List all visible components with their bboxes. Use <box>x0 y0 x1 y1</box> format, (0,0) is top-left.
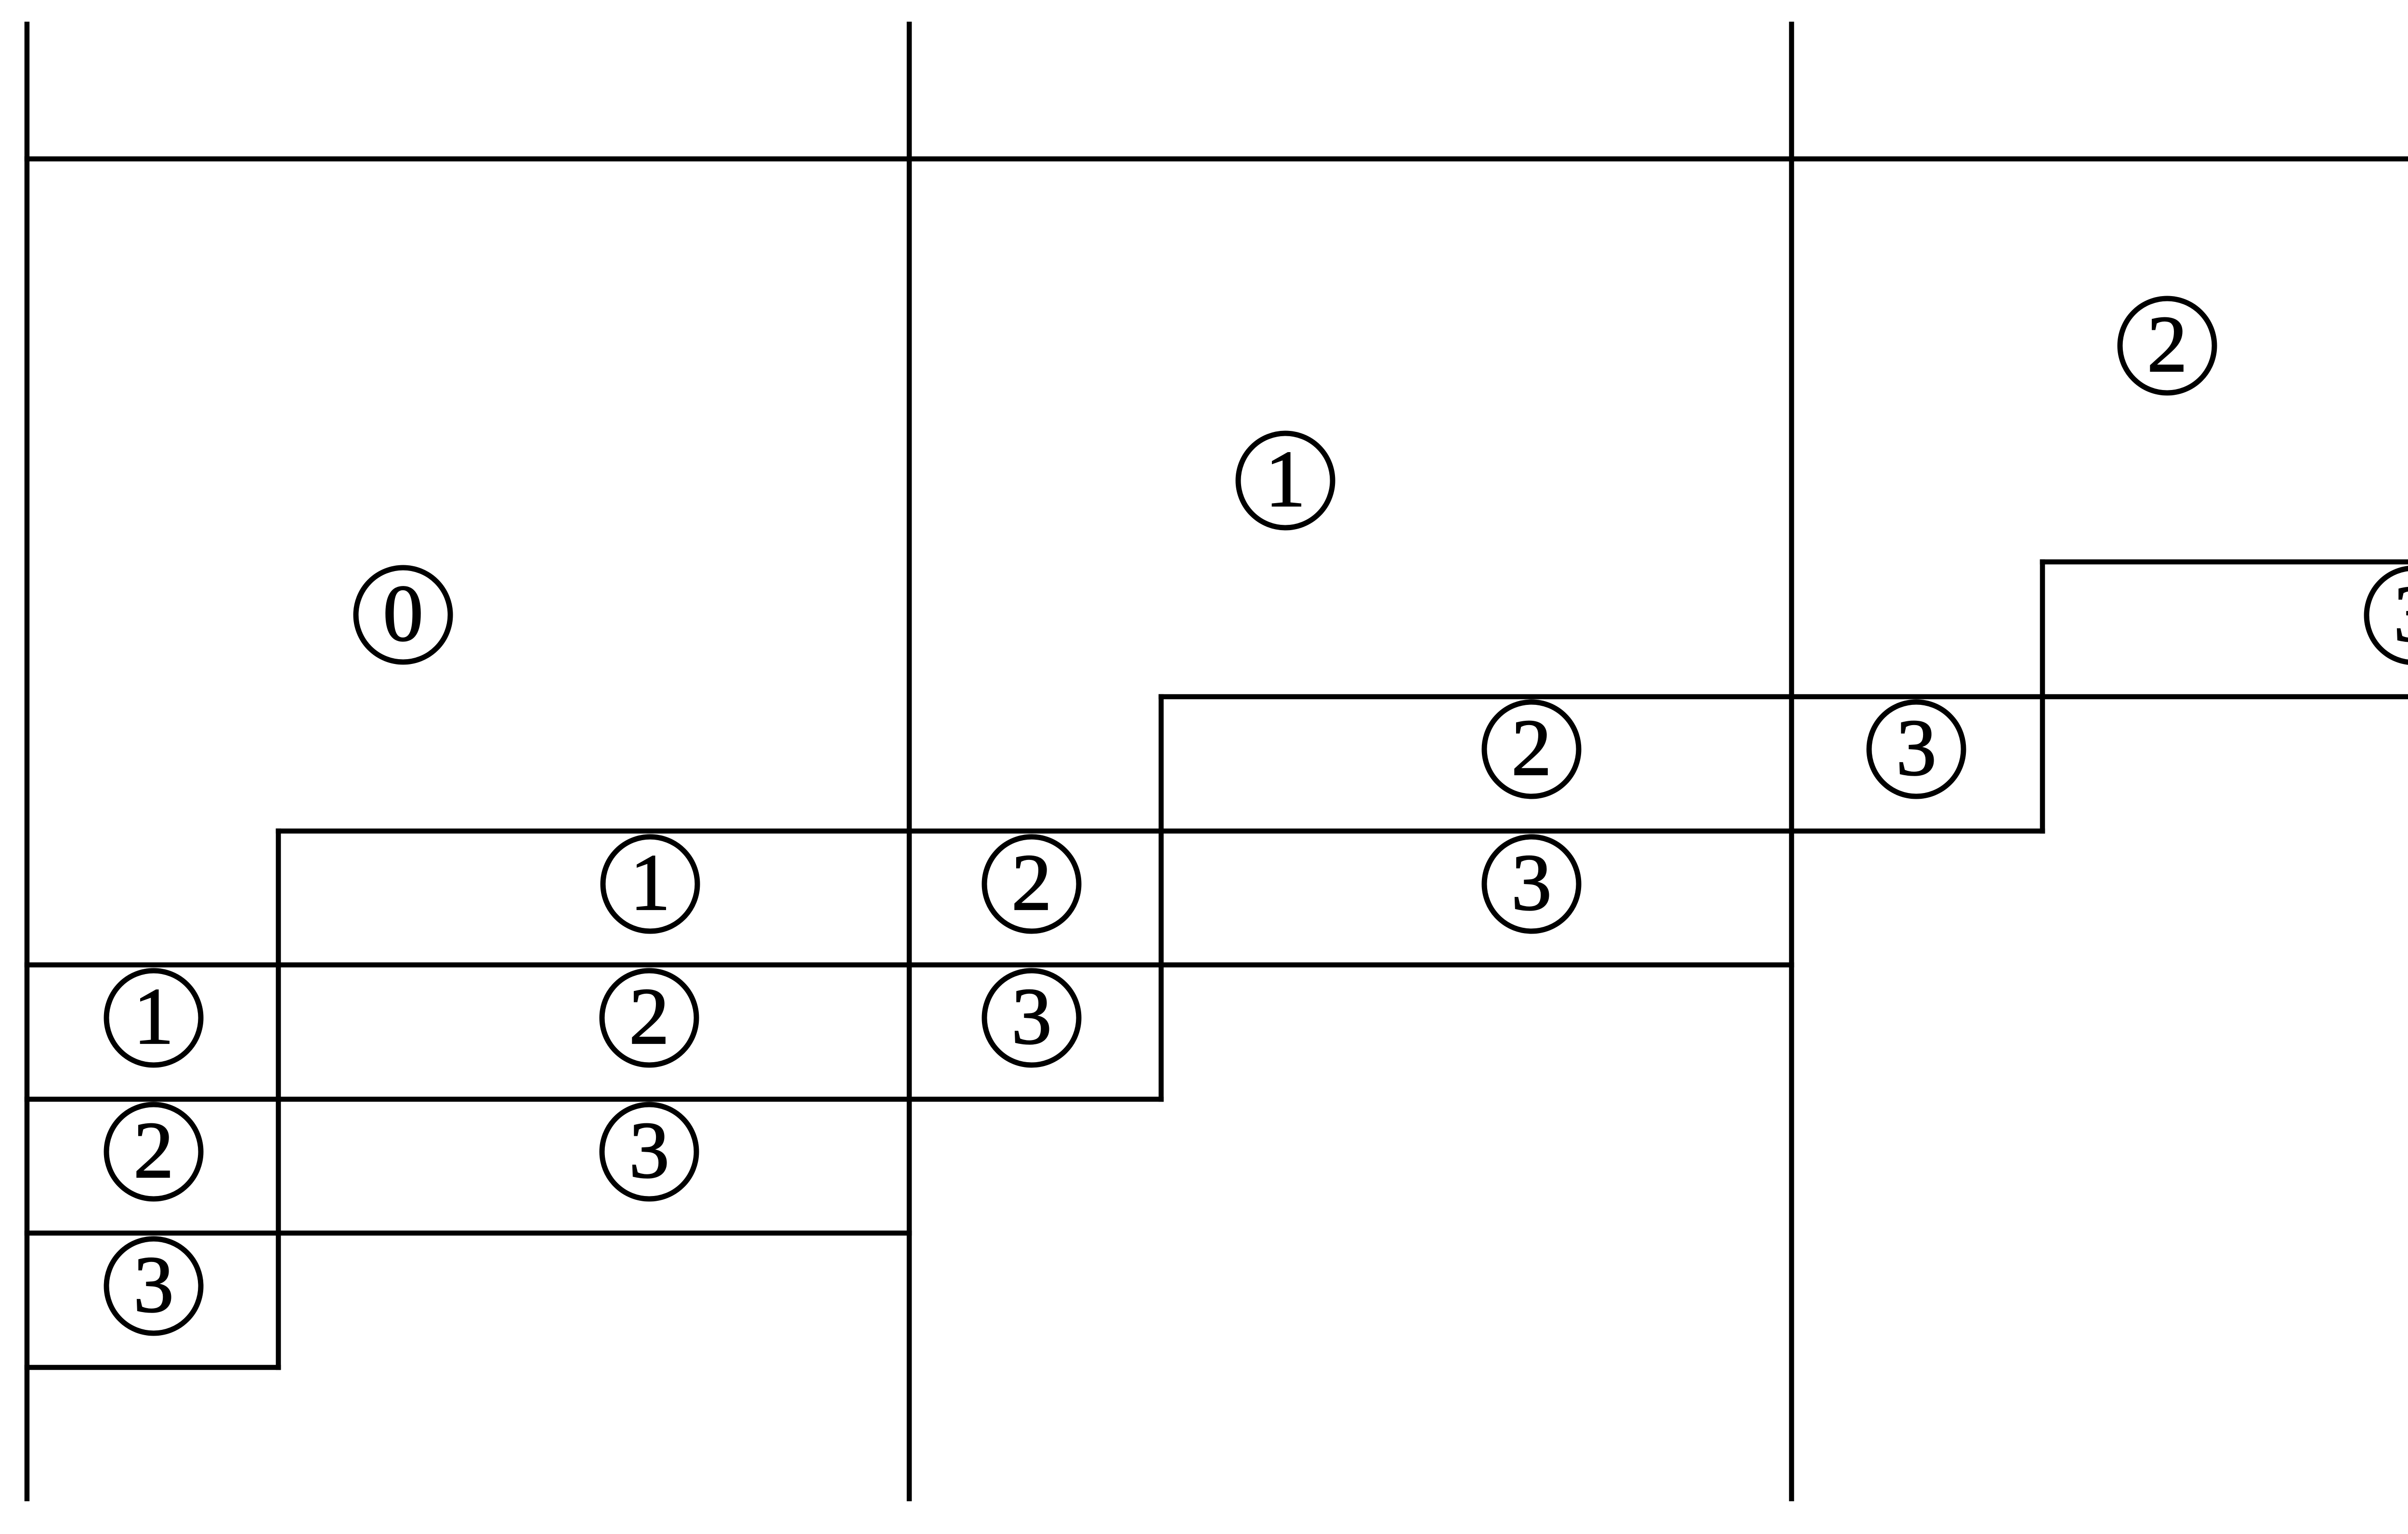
svg-text:2: 2 <box>133 1105 174 1195</box>
svg-text:3: 3 <box>133 1240 174 1329</box>
svg-text:3: 3 <box>1011 972 1052 1061</box>
svg-text:3: 3 <box>2394 569 2408 659</box>
svg-text:2: 2 <box>1011 838 1052 927</box>
svg-text:1: 1 <box>1265 434 1306 524</box>
svg-text:2: 2 <box>2147 299 2187 389</box>
svg-text:3: 3 <box>1896 703 1937 793</box>
svg-text:2: 2 <box>629 972 669 1061</box>
svg-text:1: 1 <box>630 838 670 927</box>
svg-text:3: 3 <box>1511 838 1552 927</box>
svg-text:3: 3 <box>629 1105 669 1195</box>
svg-text:2: 2 <box>1511 703 1552 793</box>
svg-text:1: 1 <box>133 972 174 1061</box>
svg-text:0: 0 <box>383 569 423 658</box>
